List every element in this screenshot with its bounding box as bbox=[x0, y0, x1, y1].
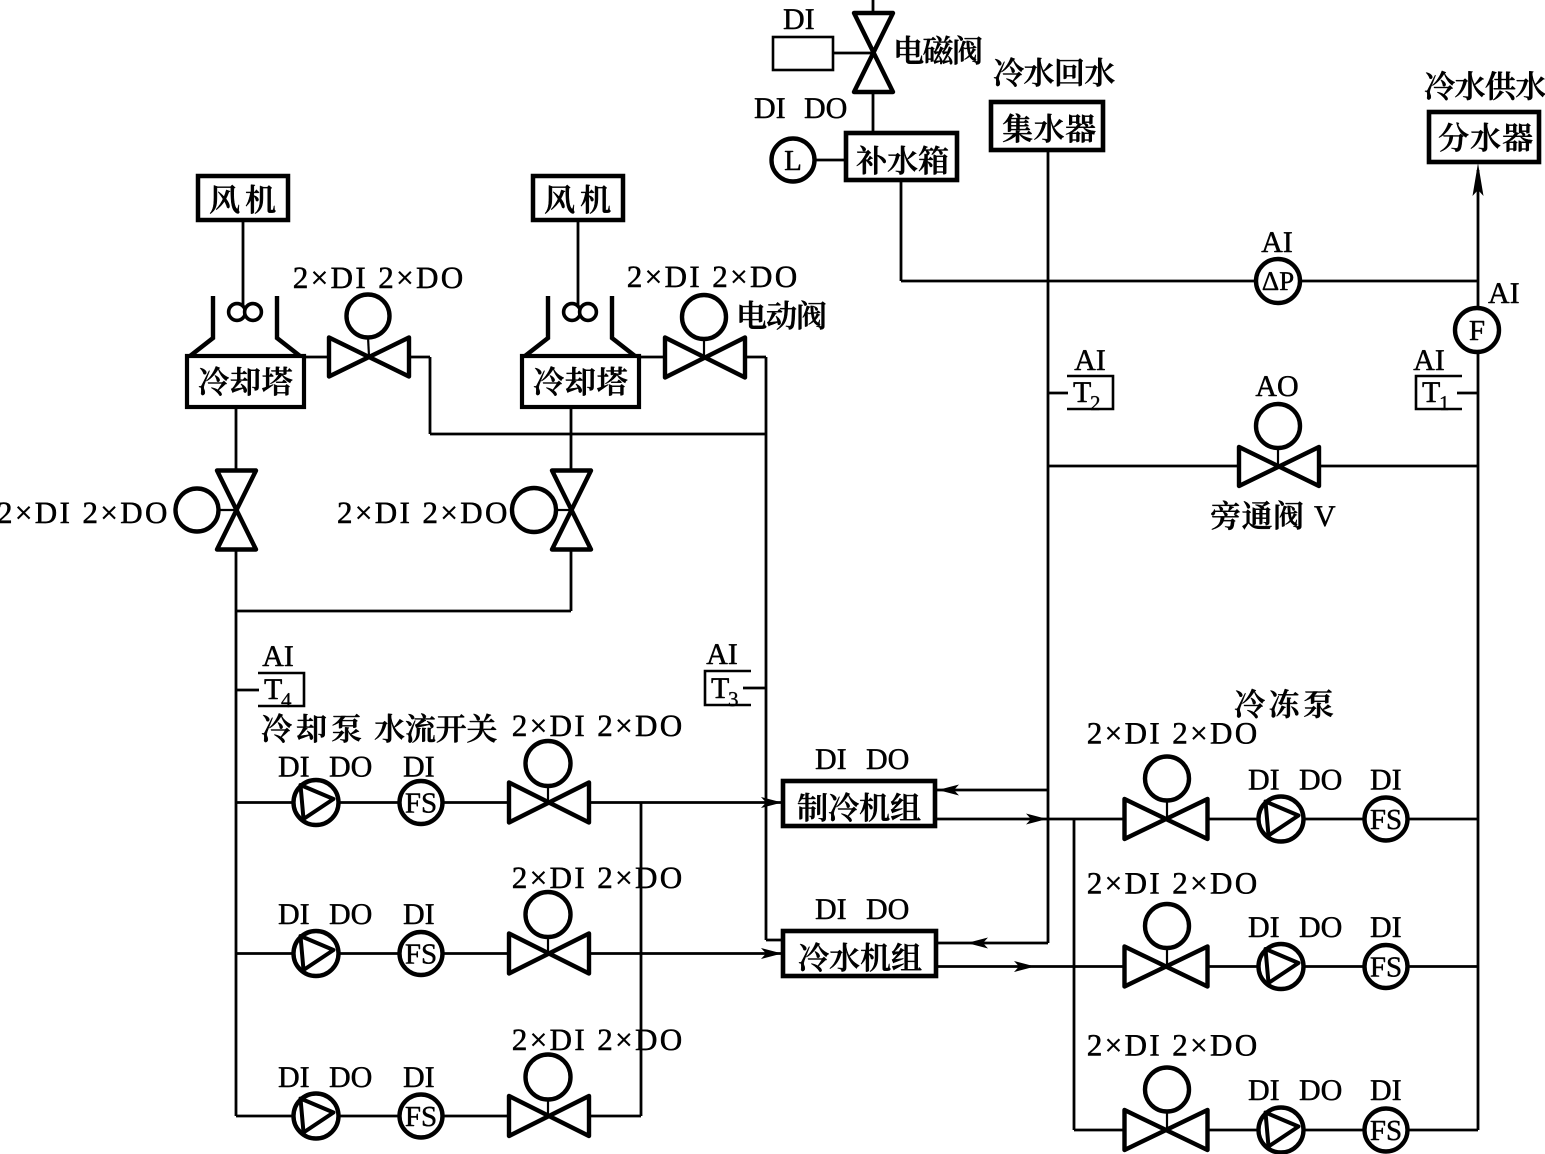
tower bottom valve 1 actuator bbox=[176, 489, 219, 532]
wire: left valve 2 stem bbox=[547, 937, 549, 952]
label: DO (pump L1) bbox=[330, 757, 371, 777]
flow switch FS R1 bbox=[1365, 798, 1408, 841]
wire: fan drive #1 bbox=[242, 220, 245, 305]
right valve R3 actuator bbox=[1145, 1068, 1189, 1112]
chilled water pump R2 bbox=[1259, 944, 1304, 989]
fan box 风机 #1 bbox=[198, 176, 288, 220]
wire: right supply header bbox=[1073, 819, 1076, 1130]
label: T2 bbox=[1074, 382, 1100, 410]
wire: bypass actuator stem bbox=[1277, 448, 1279, 464]
left valve 3 body bbox=[509, 1096, 589, 1136]
label: DI (冷水机组) bbox=[816, 899, 846, 919]
label: 冷却塔 #2 bbox=[534, 366, 627, 395]
label: 2xDI 2xDO (right valve R2) bbox=[1088, 873, 1256, 894]
label: 2xDI 2xDO (tower bottom valve 2) bbox=[338, 502, 506, 523]
right valve R1 body bbox=[1125, 799, 1208, 839]
label: DO (tank) bbox=[805, 98, 846, 118]
wire: tower 2 outlet bbox=[640, 356, 766, 359]
wire: right valve R1 stem bbox=[1166, 800, 1168, 817]
arrow out of 冷水机组 bbox=[1014, 961, 1035, 972]
label: AI (T4) bbox=[262, 646, 292, 666]
label: 制冷机组 bbox=[798, 792, 921, 821]
label: 风机 #2 bbox=[545, 185, 610, 214]
label: 风机 #1 bbox=[210, 185, 275, 214]
label: 2xDI 2xDO (left valve row1) bbox=[513, 715, 681, 736]
label: AI (T3) bbox=[706, 644, 736, 664]
arrow into unit 1 bbox=[761, 797, 782, 808]
left valve 1 body bbox=[509, 783, 589, 823]
wire: cooling pump line 3 bbox=[236, 1115, 641, 1118]
temperature sensor box T4 bbox=[258, 673, 304, 706]
arrow into 制冷机组 (return) bbox=[938, 785, 959, 796]
tower bottom valve 2 actuator bbox=[512, 488, 556, 532]
wire: right valve R2 stem bbox=[1166, 948, 1168, 965]
wire: tower 1 outlet drop bbox=[429, 357, 432, 434]
flow switch FS L2 bbox=[400, 932, 443, 975]
label: DI (pump R3) bbox=[1249, 1080, 1279, 1100]
label: AO (bypass) bbox=[1256, 376, 1298, 396]
flow sensor F bbox=[1455, 308, 1499, 352]
label: DI (FS L1) bbox=[404, 757, 434, 777]
label: 2xDI 2xDO (right valve R3) bbox=[1088, 1035, 1256, 1056]
label: 集水器 bbox=[1003, 113, 1096, 142]
tower valve 1 actuator bbox=[347, 295, 390, 338]
wire: tower valve 1 stem bbox=[368, 337, 369, 356]
wire: tower downcomer header bbox=[236, 610, 571, 613]
label: 冷却泵 bbox=[262, 713, 361, 742]
label: T1 bbox=[1423, 382, 1449, 410]
label: DI (pump R2) bbox=[1249, 917, 1279, 937]
right valve R2 actuator bbox=[1145, 904, 1189, 948]
wire: cooling water riser bbox=[235, 611, 238, 1116]
tower bottom valve 2 body bbox=[552, 471, 591, 550]
flow switch FS L3 bbox=[400, 1095, 443, 1138]
label: DI (pump L1) bbox=[279, 757, 309, 777]
cooling tower box 冷却塔 #2 bbox=[522, 356, 639, 407]
refrigerating unit 制冷机组 bbox=[783, 781, 935, 826]
label: AI (F) bbox=[1488, 283, 1518, 303]
wire: cooling pump line 1 bbox=[236, 801, 782, 804]
label: 冷却塔 #1 bbox=[199, 366, 292, 395]
label: T3 bbox=[712, 678, 738, 706]
cooling pump P1 bbox=[294, 780, 339, 825]
label: 旁通阀 bbox=[1211, 500, 1302, 529]
wire: make-up tank drop bbox=[900, 180, 903, 281]
label: AI (T2) bbox=[1074, 350, 1104, 370]
label: DI (pump R1) bbox=[1249, 770, 1279, 790]
label: 水流开关 bbox=[375, 713, 497, 742]
right valve R3 body bbox=[1125, 1110, 1208, 1150]
right valve R1 actuator bbox=[1145, 757, 1189, 801]
label: 2&#215;DI 2&#215;DO row3 bbox=[513, 1029, 681, 1050]
differential pressure sensor ΔP bbox=[1256, 259, 1300, 303]
wire: level sensor to tank bbox=[814, 159, 846, 162]
wire: left valve 1 stem bbox=[547, 786, 549, 801]
label: DI (FS R1) bbox=[1371, 770, 1401, 790]
label: AI (T1) bbox=[1413, 350, 1443, 370]
label: DO (pump R1) bbox=[1300, 770, 1341, 790]
label: DI (FS L2) bbox=[404, 904, 434, 924]
wire: tower outlet header bbox=[430, 433, 766, 436]
left valve 2 body bbox=[509, 934, 589, 974]
wire: left valve 3 stem bbox=[547, 1099, 549, 1114]
label: F bbox=[1470, 321, 1484, 340]
label: 2xDI 2xDO (tower bottom valve 1) bbox=[0, 502, 166, 523]
wire: right valve R3 stem bbox=[1166, 1111, 1168, 1128]
wire: make-up / ΔP line to supply riser bbox=[901, 280, 1478, 283]
make-up water tank 补水箱 bbox=[846, 133, 957, 180]
label: AI (ΔP) bbox=[1261, 232, 1291, 252]
label: DO (制冷机组) bbox=[867, 749, 908, 769]
chilled water unit 冷水机组 bbox=[783, 931, 936, 976]
wire: solenoid valve to make-up tank bbox=[872, 92, 875, 134]
label: 冷冻泵 bbox=[1235, 689, 1333, 718]
wire: solenoid valve top inlet bbox=[872, 0, 875, 15]
cooling tower walls #2 bbox=[525, 296, 635, 356]
arrow out of 制冷机组 bbox=[1026, 814, 1047, 825]
label: 电磁阀 bbox=[897, 35, 982, 64]
fan motor circles #2 bbox=[564, 304, 597, 321]
wire: return into 冷水机组 bbox=[936, 942, 1048, 945]
label: 分水器 bbox=[1439, 122, 1533, 151]
wire: cooling pump line 2 bbox=[236, 952, 782, 955]
bypass valve actuator bbox=[1256, 404, 1300, 448]
label: 补水箱 bbox=[857, 146, 949, 175]
tower bottom valve 1 body bbox=[217, 471, 256, 550]
wire: T1 tick to supply riser bbox=[1457, 392, 1478, 395]
label: V bbox=[1314, 506, 1335, 526]
wire: T3 tick bbox=[743, 687, 766, 690]
temperature sensor box T1 bbox=[1416, 376, 1462, 409]
arrow into unit 2 bbox=[761, 948, 782, 959]
cooling pump P2 bbox=[294, 931, 339, 976]
level sensor L bbox=[772, 139, 815, 182]
wire: tower 1 outlet bbox=[304, 356, 430, 359]
arrow into 冷水机组 (return) bbox=[967, 938, 988, 949]
right valve R2 body bbox=[1125, 947, 1208, 987]
cooling pump P3 bbox=[294, 1094, 339, 1139]
label: 冷水供水 bbox=[1425, 71, 1545, 100]
fan motor circles #1 bbox=[229, 304, 262, 321]
wire: collector riser down bbox=[1047, 150, 1050, 943]
label: DI (pump L3) bbox=[279, 1067, 309, 1087]
label: 冷水机组 bbox=[799, 942, 922, 971]
label: DO (pump L3) bbox=[330, 1067, 371, 1087]
wire: into chilled water unit bbox=[766, 939, 783, 942]
wire: bottom valve 2 stem bbox=[556, 509, 571, 511]
cooling tower walls #1 bbox=[190, 296, 300, 356]
label: DO (pump R3) bbox=[1300, 1080, 1341, 1100]
label: 冷水回水 bbox=[994, 57, 1115, 86]
wire: left pump discharge header bbox=[640, 803, 643, 1117]
label: DO (冷水机组) bbox=[867, 899, 908, 919]
wire: supply riser bbox=[1477, 170, 1480, 1130]
temperature sensor box T3 bbox=[705, 671, 751, 705]
wire: DI box to solenoid valve bbox=[833, 52, 871, 55]
wire: condenser supply drop bbox=[765, 357, 768, 940]
label: DI (制冷机组) bbox=[816, 749, 846, 769]
wire: 冷水机组 supply to pump row R2 bbox=[936, 965, 1478, 968]
label: 2&#215;DI 2&#215;DO row2 bbox=[513, 867, 681, 888]
label: DI (tank) bbox=[755, 98, 785, 118]
label: DI (solenoid) bbox=[784, 9, 814, 29]
label: L bbox=[785, 151, 800, 170]
wire: 制冷机组 supply to pump row R1 bbox=[935, 818, 1478, 821]
chilled water pump R1 bbox=[1259, 797, 1304, 842]
label: 电动阀 bbox=[740, 300, 826, 329]
wire: tower valve 2 stem bbox=[703, 339, 705, 356]
left valve 3 actuator bbox=[526, 1055, 571, 1100]
left valve 2 actuator bbox=[526, 892, 571, 937]
label: ΔP bbox=[1263, 272, 1293, 290]
solenoid valve 电磁阀 bbox=[854, 13, 893, 92]
wire: T2 tick to collector riser bbox=[1048, 392, 1068, 395]
cooling tower box 冷却塔 #1 bbox=[187, 356, 304, 407]
label: 2xDI 2xDO (tower valve 1) bbox=[294, 267, 462, 288]
label: DI (FS R2) bbox=[1371, 917, 1401, 937]
wire: tower 1 downcomer bbox=[235, 407, 238, 611]
tower valve 2 actuator bbox=[682, 295, 726, 339]
left valve 1 actuator bbox=[526, 741, 571, 786]
label: DI (FS R3) bbox=[1371, 1080, 1401, 1100]
chilled water collector 集水器 bbox=[991, 102, 1103, 150]
chilled water pump R3 bbox=[1259, 1108, 1304, 1153]
label: 2xDI 2xDO (tower valve 2) bbox=[628, 266, 796, 287]
flow switch FS R3 bbox=[1365, 1109, 1408, 1152]
wire: return into 制冷机组 bbox=[936, 789, 1048, 792]
wire: fan drive #2 bbox=[577, 220, 580, 305]
bypass valve body bbox=[1239, 447, 1319, 486]
chilled water distributor 分水器 bbox=[1429, 112, 1539, 162]
flow switch FS L1 bbox=[400, 781, 443, 824]
arrow into distributor bbox=[1473, 163, 1484, 196]
flow switch FS R2 bbox=[1365, 945, 1408, 988]
label: DI (pump L2) bbox=[279, 904, 309, 924]
tower valve 1 body bbox=[329, 338, 409, 377]
wire: T4 tick bbox=[236, 689, 259, 692]
label: DI (FS L3) bbox=[404, 1067, 434, 1087]
wire: bottom valve 1 stem bbox=[218, 509, 236, 511]
label: T4 bbox=[265, 679, 292, 707]
temperature sensor box T2 bbox=[1067, 376, 1113, 409]
wire: bypass line bbox=[1048, 465, 1478, 468]
DI contact box (solenoid) bbox=[773, 37, 833, 70]
label: 2xDI 2xDO (right valve R1) bbox=[1088, 723, 1256, 744]
wire: tower 2 downcomer bbox=[570, 407, 573, 611]
tower valve 2 body 电动阀 bbox=[665, 338, 745, 378]
fan box 风机 #2 bbox=[533, 176, 623, 220]
wire: pump row R3 line bbox=[1074, 1129, 1478, 1132]
label: DO (pump R2) bbox=[1300, 917, 1341, 937]
label: DO (pump L2) bbox=[330, 904, 371, 924]
